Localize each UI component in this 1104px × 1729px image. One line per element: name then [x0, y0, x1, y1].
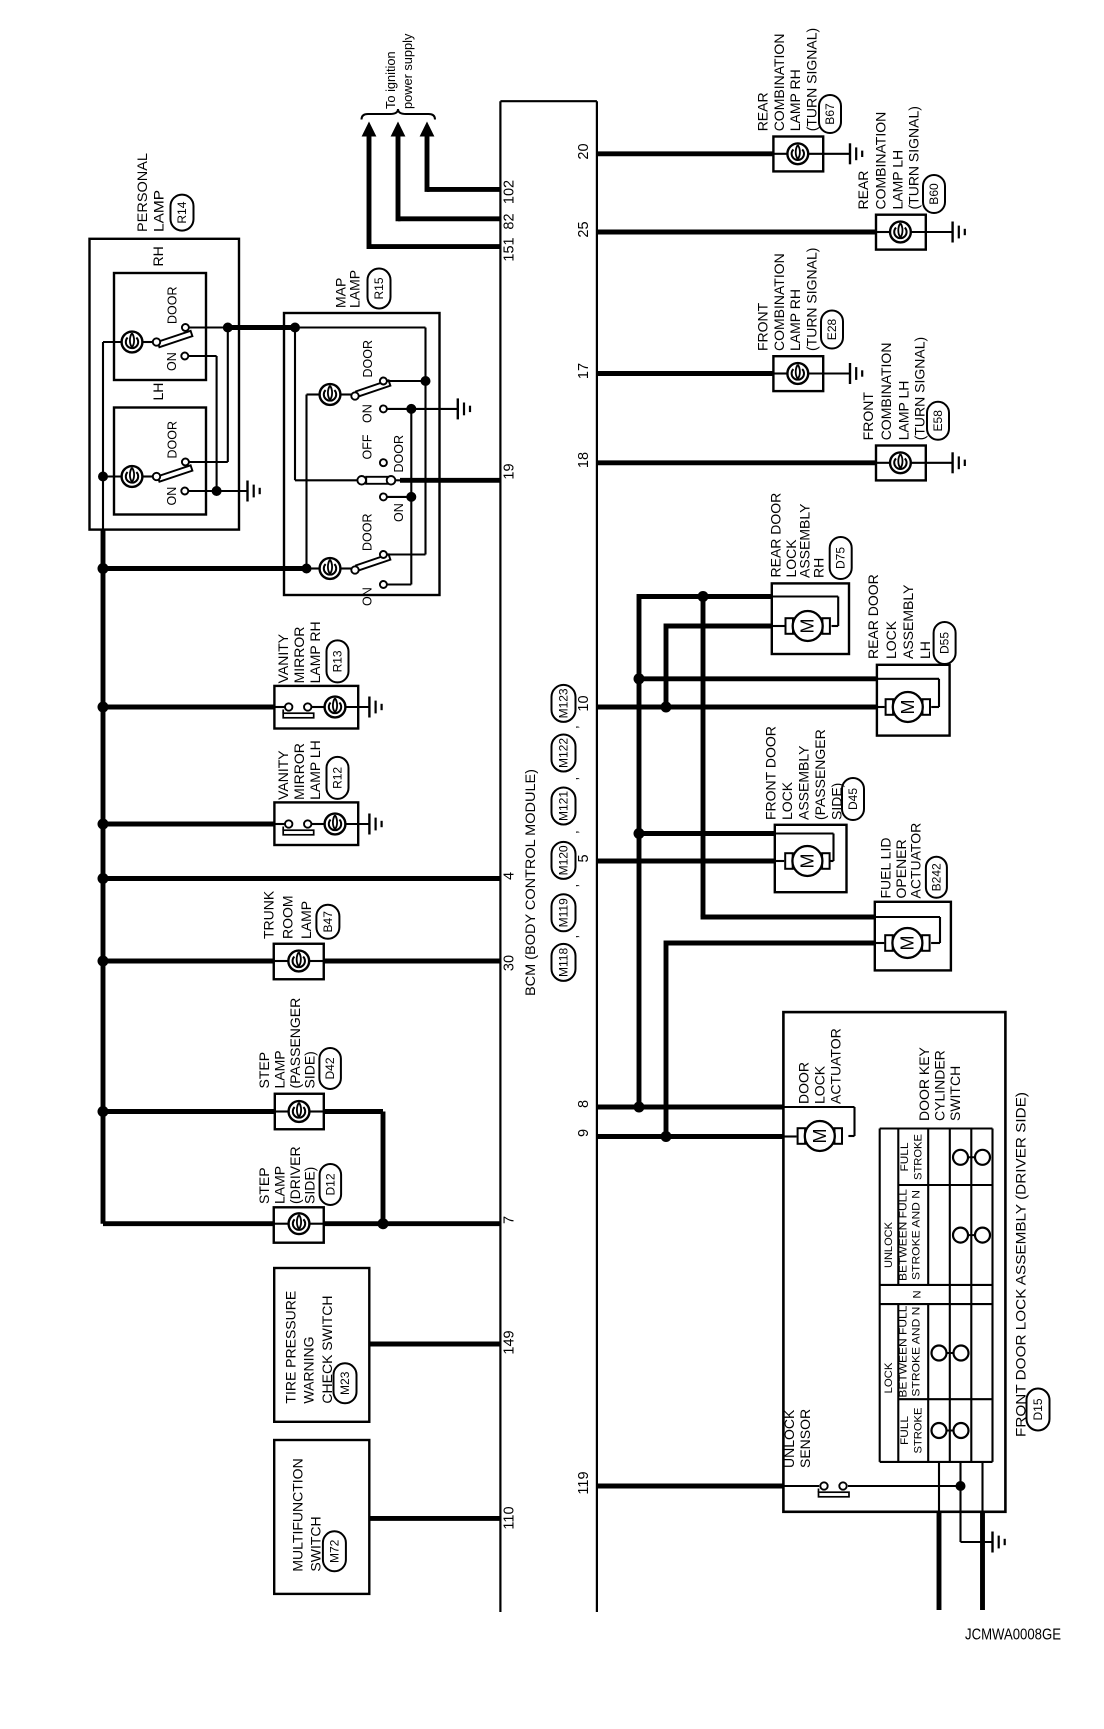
wire to D15 ground: [961, 1541, 993, 1543]
lamp B60: [890, 222, 911, 243]
wire key switch column 1 drop: [938, 1462, 940, 1512]
svg-text:LOCK: LOCK: [883, 1362, 895, 1394]
connector B67: [819, 95, 841, 133]
junction V1 / D45 feed: [634, 828, 645, 839]
svg-text:7: 7: [502, 1216, 518, 1224]
arrow to ignition (pin 151): [362, 122, 377, 137]
connector R14: [171, 195, 194, 231]
svg-text:,: ,: [566, 777, 581, 781]
svg-text:LAMP: LAMP: [347, 270, 363, 308]
wire pin9 inside D15: [783, 1135, 796, 1137]
wire bus to step lamp driver: [103, 1221, 274, 1226]
svg-text:LAMP LH: LAMP LH: [896, 381, 912, 441]
svg-text:SWITCH: SWITCH: [308, 1516, 324, 1571]
map lamp top rail: [295, 326, 426, 328]
map lamp R15 box: [284, 313, 440, 595]
wire RH lamp to switch pivot: [142, 341, 153, 343]
wire map2 ON to rail: [387, 496, 411, 498]
wire unlock sensor to junction: [848, 1485, 961, 1487]
lamp trunk room: [288, 951, 309, 972]
wire bus to BCM pin 4: [103, 876, 500, 881]
wire map bus feed: [103, 566, 307, 571]
connector M119: [552, 894, 576, 931]
lamp map 3: [320, 558, 341, 579]
svg-text:DOOR: DOOR: [166, 287, 180, 325]
fuel lid opener label: [878, 823, 924, 899]
contact map1 ON: [380, 405, 387, 412]
step lamp passenger label: [256, 998, 318, 1089]
wire E58 lamp to ground: [911, 462, 953, 464]
wire into B60: [876, 231, 890, 233]
personal lamp R14 outer box: [90, 239, 240, 530]
svg-text:CYLINDER: CYLINDER: [932, 1050, 948, 1121]
svg-text:RH: RH: [811, 558, 827, 578]
svg-text:FULL: FULL: [899, 1143, 911, 1172]
svg-text:ON: ON: [360, 404, 374, 423]
junction DOOR rail / switch1 DOOR: [421, 376, 431, 386]
wire into trunk lamp: [274, 960, 289, 962]
wire E28 lamp to ground: [808, 372, 850, 374]
wire BCM pin 8: [597, 1105, 784, 1110]
svg-text:COMBINATION: COMBINATION: [873, 112, 889, 210]
connector R12: [327, 757, 349, 799]
connector M121: [552, 788, 576, 825]
svg-text:DOOR KEY: DOOR KEY: [916, 1046, 932, 1121]
svg-text:LAMP: LAMP: [271, 1050, 287, 1088]
brace grouping ignition feeds: [362, 109, 436, 120]
svg-text:LAMP: LAMP: [298, 901, 314, 939]
svg-text:151: 151: [502, 237, 518, 261]
wire BCM pin 5: [597, 859, 775, 864]
wire into vanity LH switch: [274, 823, 285, 825]
svg-text:MIRROR: MIRROR: [291, 627, 307, 684]
wire pin8 inside D15: [783, 1106, 854, 1108]
rear door lock assembly RH box D75: [772, 583, 849, 654]
wire bus to step lamp passenger: [103, 1109, 275, 1114]
svg-text:5: 5: [576, 854, 592, 862]
wire BCM pin 9: [597, 1134, 784, 1139]
label FULL STROKE (unlock): [899, 1134, 925, 1180]
contact RH DOOR: [182, 324, 189, 331]
junction map lamp top rail: [290, 323, 300, 333]
svg-text:REAR DOOR: REAR DOOR: [768, 493, 784, 578]
wire lock feed vertical V1: [637, 594, 642, 1107]
lamp map 1: [320, 384, 341, 405]
wire inside D55 feed: [877, 678, 939, 680]
junction V1 / fuel lid feed V3: [698, 591, 709, 602]
wire trunk lamp to BCM pin 30: [324, 959, 501, 964]
svg-text:R12: R12: [331, 767, 345, 789]
svg-text:PERSONAL: PERSONAL: [134, 153, 150, 232]
svg-text:CHECK SWITCH: CHECK SWITCH: [319, 1295, 335, 1403]
switch personal LH lever: [158, 465, 193, 481]
svg-text:SIDE): SIDE): [302, 1167, 318, 1204]
svg-text:FULL: FULL: [899, 1416, 911, 1445]
svg-text:LH: LH: [150, 383, 166, 401]
svg-text:M: M: [897, 936, 917, 951]
svg-text:20: 20: [576, 143, 592, 159]
svg-text:FUEL LID: FUEL LID: [878, 838, 894, 899]
connector M72: [323, 1531, 346, 1571]
svg-text:STROKE AND N: STROKE AND N: [911, 1307, 923, 1397]
svg-text:OFF: OFF: [360, 434, 374, 459]
unlock sensor label: [781, 1409, 813, 1468]
multifunction switch box M72: [274, 1440, 369, 1594]
slide switch right contact: [387, 476, 396, 485]
svg-text:(PASSENGER: (PASSENGER: [287, 998, 303, 1089]
wire pin19 out of map lamp: [395, 479, 401, 481]
contact RH ON: [181, 353, 188, 360]
junction V1 / D55 feed: [634, 673, 645, 684]
wire to personal lamp ground: [217, 490, 248, 492]
connector M23: [334, 1363, 357, 1403]
connector R13: [327, 640, 349, 682]
junction bus / map lamp feed: [98, 563, 109, 574]
svg-text:30: 30: [502, 955, 518, 971]
personal lamp RH cell box: [114, 273, 206, 380]
lamp E28: [787, 363, 808, 384]
tire pressure switch label: [282, 1291, 334, 1404]
connector R15: [368, 269, 391, 309]
B67 lamp box: [773, 137, 823, 172]
connector D55: [934, 622, 956, 664]
contact LH DOOR: [182, 459, 189, 466]
svg-text:D75: D75: [834, 547, 848, 569]
connector D42: [319, 1048, 341, 1089]
B67 label: [755, 28, 820, 131]
wire LH DOOR contact to corner: [189, 461, 228, 463]
svg-text:LAMP: LAMP: [150, 190, 166, 232]
junction step lamps: [378, 1218, 389, 1229]
map lamp label: [333, 270, 363, 308]
bus wire from personal lamp down: [101, 530, 106, 1224]
wire bus to trunk room lamp: [103, 959, 274, 964]
motor rear door lock LH: [886, 692, 930, 722]
svg-text:VANITY: VANITY: [275, 750, 291, 800]
E28 lamp box: [773, 356, 823, 391]
junction bus / BCM pin 4 wire: [98, 873, 109, 884]
arrow to ignition (pin 82): [391, 122, 406, 137]
wire LH ON to ground junction: [188, 490, 216, 492]
svg-text:MULTIFUNCTION: MULTIFUNCTION: [289, 1458, 305, 1571]
ON ground rail vertical: [410, 409, 412, 585]
svg-text:R14: R14: [175, 201, 189, 223]
connector D45: [842, 778, 864, 820]
lamp vanity RH: [325, 697, 346, 718]
wire lamp1 left: [307, 393, 320, 395]
DOOR tie rail RH-LH: [227, 328, 229, 463]
wire BCM pin 19: [400, 478, 500, 483]
rear door lock LH label: [865, 574, 933, 659]
wire D75 to V2 rail: [666, 624, 772, 629]
svg-text:ON: ON: [392, 503, 406, 522]
tire pressure warning check switch box M23: [274, 1268, 369, 1422]
wire BCM pin 102 to ignition feed: [427, 134, 500, 192]
junction left rail / LH lamp: [98, 472, 108, 482]
svg-text:,: ,: [566, 935, 581, 939]
contact LH ON: [181, 488, 188, 495]
junction ON rail / map2 ON: [406, 492, 416, 502]
wire inside D75 feed: [772, 595, 838, 597]
switch map 1 pivot: [351, 392, 358, 399]
svg-text:(TURN SIGNAL): (TURN SIGNAL): [911, 337, 927, 440]
connector B242: [926, 857, 947, 898]
svg-text:(TURN SIGNAL): (TURN SIGNAL): [905, 106, 921, 209]
svg-text:STROKE: STROKE: [913, 1408, 925, 1454]
svg-text:REAR: REAR: [855, 171, 871, 210]
svg-text:STEP: STEP: [256, 1052, 272, 1089]
contact pair unlock full stroke: [953, 1150, 990, 1165]
vanity LH label: [275, 740, 323, 800]
svg-text:UNLOCK: UNLOCK: [781, 1409, 797, 1468]
svg-text:power supply: power supply: [400, 33, 415, 109]
wire V3 fuel lid feed vertical: [701, 597, 706, 918]
E58 label: [860, 337, 927, 440]
wire key switch column 3 external: [980, 1512, 985, 1610]
wire key switch column 2 drop: [959, 1462, 961, 1542]
svg-text:,: ,: [566, 725, 581, 729]
label BETWEEN FULL STROKE AND N (lock): [897, 1306, 922, 1398]
wire V2 upper segment: [664, 624, 669, 707]
ON tie rail RH-LH: [216, 356, 218, 491]
wire to map lamp ground: [411, 408, 458, 410]
wire step driver to BCM pin 7: [324, 1221, 501, 1226]
junction bus / vanity RH feed: [98, 702, 109, 713]
wire multifunction to BCM pin 110: [369, 1516, 500, 1521]
svg-text:REAR: REAR: [755, 92, 771, 131]
ground E28: [850, 363, 862, 384]
wire feed DOOR-rail into map lamp: [228, 325, 295, 330]
ground E58: [953, 452, 965, 473]
wire V3 to fuel lid actuator: [701, 915, 875, 920]
svg-text:B67: B67: [823, 103, 837, 125]
wire V2 lower segment: [664, 941, 669, 1137]
map lamp DOOR rail right: [424, 328, 426, 555]
unlock sensor switch: [819, 1482, 850, 1496]
connector B47: [316, 905, 339, 939]
lamp step driver: [289, 1213, 310, 1234]
wire BCM to E58 lamp: [597, 460, 876, 465]
svg-text:BCM (BODY CONTROL MODULE): BCM (BODY CONTROL MODULE): [523, 769, 539, 996]
svg-text:SWITCH: SWITCH: [947, 1066, 963, 1121]
svg-text:To ignition: To ignition: [383, 51, 398, 109]
ground B60: [953, 222, 965, 243]
wire into B67: [773, 153, 787, 155]
svg-text:M118: M118: [557, 948, 571, 977]
wire into step lamp passenger: [275, 1110, 289, 1112]
wire switch to lamp vanity LH: [311, 823, 325, 825]
svg-text:SENSOR: SENSOR: [797, 1409, 813, 1468]
svg-text:19: 19: [502, 463, 518, 479]
contact pair unlock between full stroke and N: [953, 1228, 990, 1243]
svg-text:DOOR: DOOR: [166, 421, 180, 459]
svg-text:UNLOCK: UNLOCK: [883, 1221, 895, 1268]
switch personal LH pivot: [153, 473, 160, 480]
left rail inside personal lamp: [102, 342, 104, 477]
switch map 3 pivot: [351, 566, 358, 573]
contact pair lock full stroke: [932, 1423, 969, 1438]
E58 lamp box: [876, 446, 926, 481]
wire BCM pin 82 to ignition feed: [398, 134, 500, 221]
svg-text:DOOR: DOOR: [360, 514, 374, 552]
wire bus to vanity mirror lamp LH: [103, 822, 274, 827]
wire vanity RH lamp to ground: [345, 706, 369, 708]
svg-text:110: 110: [502, 1506, 518, 1529]
svg-text:STROKE AND N: STROKE AND N: [911, 1190, 923, 1280]
connector D75: [830, 537, 852, 579]
svg-text:SIDE): SIDE): [302, 1051, 318, 1088]
ground map lamp: [458, 398, 470, 419]
svg-text:ACTUATOR: ACTUATOR: [908, 823, 924, 899]
svg-text:FRONT: FRONT: [860, 392, 876, 441]
wire V1 to front door lock passenger feed: [639, 831, 775, 836]
fuel lid opener actuator box B242: [875, 902, 951, 971]
wire map3 DOOR to rail: [387, 553, 426, 555]
motor fuel lid opener: [885, 928, 929, 958]
wire trunk lamp out: [309, 960, 324, 962]
front door lock assembly driver side box D15: [783, 1012, 1005, 1512]
svg-text:STROKE: STROKE: [913, 1134, 925, 1180]
step lamp passenger box: [275, 1094, 324, 1130]
svg-text:D42: D42: [323, 1057, 337, 1079]
svg-text:M120: M120: [557, 845, 571, 875]
svg-text:LOCK: LOCK: [883, 620, 899, 659]
label To ignition power supply: [383, 33, 415, 109]
svg-text:COMBINATION: COMBINATION: [878, 343, 894, 441]
svg-text:D12: D12: [323, 1173, 337, 1195]
wire LH lamp to switch pivot: [142, 475, 153, 477]
wire map1 DOOR to rail: [387, 380, 426, 382]
svg-text:REAR DOOR: REAR DOOR: [865, 574, 881, 659]
svg-text:102: 102: [502, 180, 518, 204]
svg-text:D55: D55: [938, 632, 952, 654]
svg-text:(TURN SIGNAL): (TURN SIGNAL): [803, 28, 819, 131]
wire pin119 inside D15: [783, 1485, 819, 1487]
wire bus to vanity mirror lamp RH: [103, 705, 274, 710]
svg-text:,: ,: [566, 830, 581, 834]
wire inside B242 feed: [875, 916, 940, 918]
motor front door lock passenger: [785, 846, 829, 876]
svg-text:COMBINATION: COMBINATION: [771, 34, 787, 132]
motor door lock actuator: [798, 1121, 842, 1151]
svg-text:(TURN SIGNAL): (TURN SIGNAL): [803, 248, 819, 351]
svg-text:MIRROR: MIRROR: [291, 743, 307, 800]
contact map2 ON: [380, 493, 387, 500]
svg-text:(PASSENGER: (PASSENGER: [812, 729, 828, 820]
svg-text:LH: LH: [917, 641, 933, 659]
personal lamp label: [134, 153, 166, 232]
wire map1 ON to ground rail: [387, 408, 411, 410]
svg-text:N: N: [912, 1290, 924, 1298]
switch personal RH pivot: [153, 338, 160, 345]
svg-text:ROOM: ROOM: [279, 895, 295, 939]
step lamp driver label: [256, 1146, 318, 1204]
wire LH lamp to left rail: [103, 475, 122, 477]
svg-text:COMBINATION: COMBINATION: [771, 253, 787, 351]
wire lamp3 to pivot: [340, 567, 352, 569]
svg-text:LOCK: LOCK: [779, 781, 795, 820]
svg-text:18: 18: [576, 452, 592, 468]
svg-text:17: 17: [576, 363, 592, 379]
wire V1 to rear door lock RH: [639, 594, 772, 599]
svg-text:M119: M119: [557, 898, 571, 927]
map lamp left rail: [294, 328, 296, 481]
svg-text:LAMP LH: LAMP LH: [307, 740, 323, 800]
junction V2 / BCM pin 9 wire: [661, 1131, 672, 1142]
motor rear door lock RH: [786, 611, 830, 641]
ground door key cylinder switch: [993, 1532, 1005, 1553]
label BETWEEN FULL STROKE AND N (unlock): [897, 1189, 922, 1281]
multifunction switch label: [289, 1458, 323, 1571]
svg-text:M121: M121: [557, 791, 571, 821]
svg-text:FRONT: FRONT: [755, 302, 771, 351]
vanity RH label: [275, 621, 323, 683]
step lamp driver box: [274, 1207, 324, 1242]
svg-text:4: 4: [502, 872, 518, 880]
wire into E58: [876, 462, 890, 464]
svg-text:R13: R13: [331, 650, 345, 672]
map lamp lamp rail: [305, 395, 307, 569]
wire BCM to B60 lamp: [597, 230, 876, 235]
svg-text:M123: M123: [557, 688, 571, 718]
ground vanity RH: [369, 697, 381, 718]
svg-text:LAMP RH: LAMP RH: [787, 289, 803, 351]
commas between connector refs: [566, 725, 581, 938]
rear door lock RH label: [768, 493, 827, 578]
wire left rail to box exit: [102, 477, 104, 530]
junction DOOR rail / feed wire: [223, 323, 233, 333]
door key cylinder switch table: [880, 1129, 993, 1462]
front door lock passenger label: [763, 726, 845, 820]
B60 label: [855, 106, 921, 209]
svg-text:R15: R15: [372, 277, 386, 299]
wire BCM to B67 lamp: [597, 151, 774, 156]
svg-text:ON: ON: [165, 352, 179, 371]
svg-text:ON: ON: [360, 587, 374, 606]
connector D15: [1027, 1389, 1050, 1431]
rear door lock assembly LH box D55: [877, 665, 950, 736]
svg-text:E58: E58: [931, 410, 945, 432]
wire key switch column 3 drop: [981, 1462, 983, 1512]
svg-text:,: ,: [566, 884, 581, 888]
svg-text:(DRIVER: (DRIVER: [287, 1146, 303, 1204]
contact map3 DOOR: [380, 551, 387, 558]
svg-text:BETWEEN FULL: BETWEEN FULL: [897, 1189, 909, 1281]
svg-text:M23: M23: [338, 1371, 352, 1395]
svg-text:FRONT DOOR: FRONT DOOR: [763, 726, 779, 820]
wire B60 lamp to ground: [911, 231, 953, 233]
wire RH DOOR contact to junction: [189, 326, 228, 328]
wire RH lamp to left rail: [103, 341, 122, 343]
lamp personal RH: [122, 332, 143, 353]
junction lamp rail / bus feed: [302, 564, 312, 574]
connector M118: [552, 944, 576, 981]
wire BCM pin 10: [597, 705, 877, 710]
ground B67: [850, 143, 862, 164]
svg-text:10: 10: [576, 695, 592, 711]
svg-text:DOOR: DOOR: [392, 435, 406, 473]
junction key switch / unlock sensor: [956, 1481, 966, 1491]
contact map1 DOOR: [380, 378, 387, 385]
svg-text:LAMP: LAMP: [271, 1166, 287, 1204]
slide switch bar: [366, 477, 387, 484]
junction V1 / pin 8 wire: [634, 1102, 645, 1113]
wire into E28: [773, 372, 787, 374]
svg-text:LOCK: LOCK: [812, 1065, 828, 1104]
svg-text:D45: D45: [846, 788, 860, 810]
door key cylinder switch label: [916, 1046, 963, 1121]
svg-text:M122: M122: [557, 738, 571, 768]
